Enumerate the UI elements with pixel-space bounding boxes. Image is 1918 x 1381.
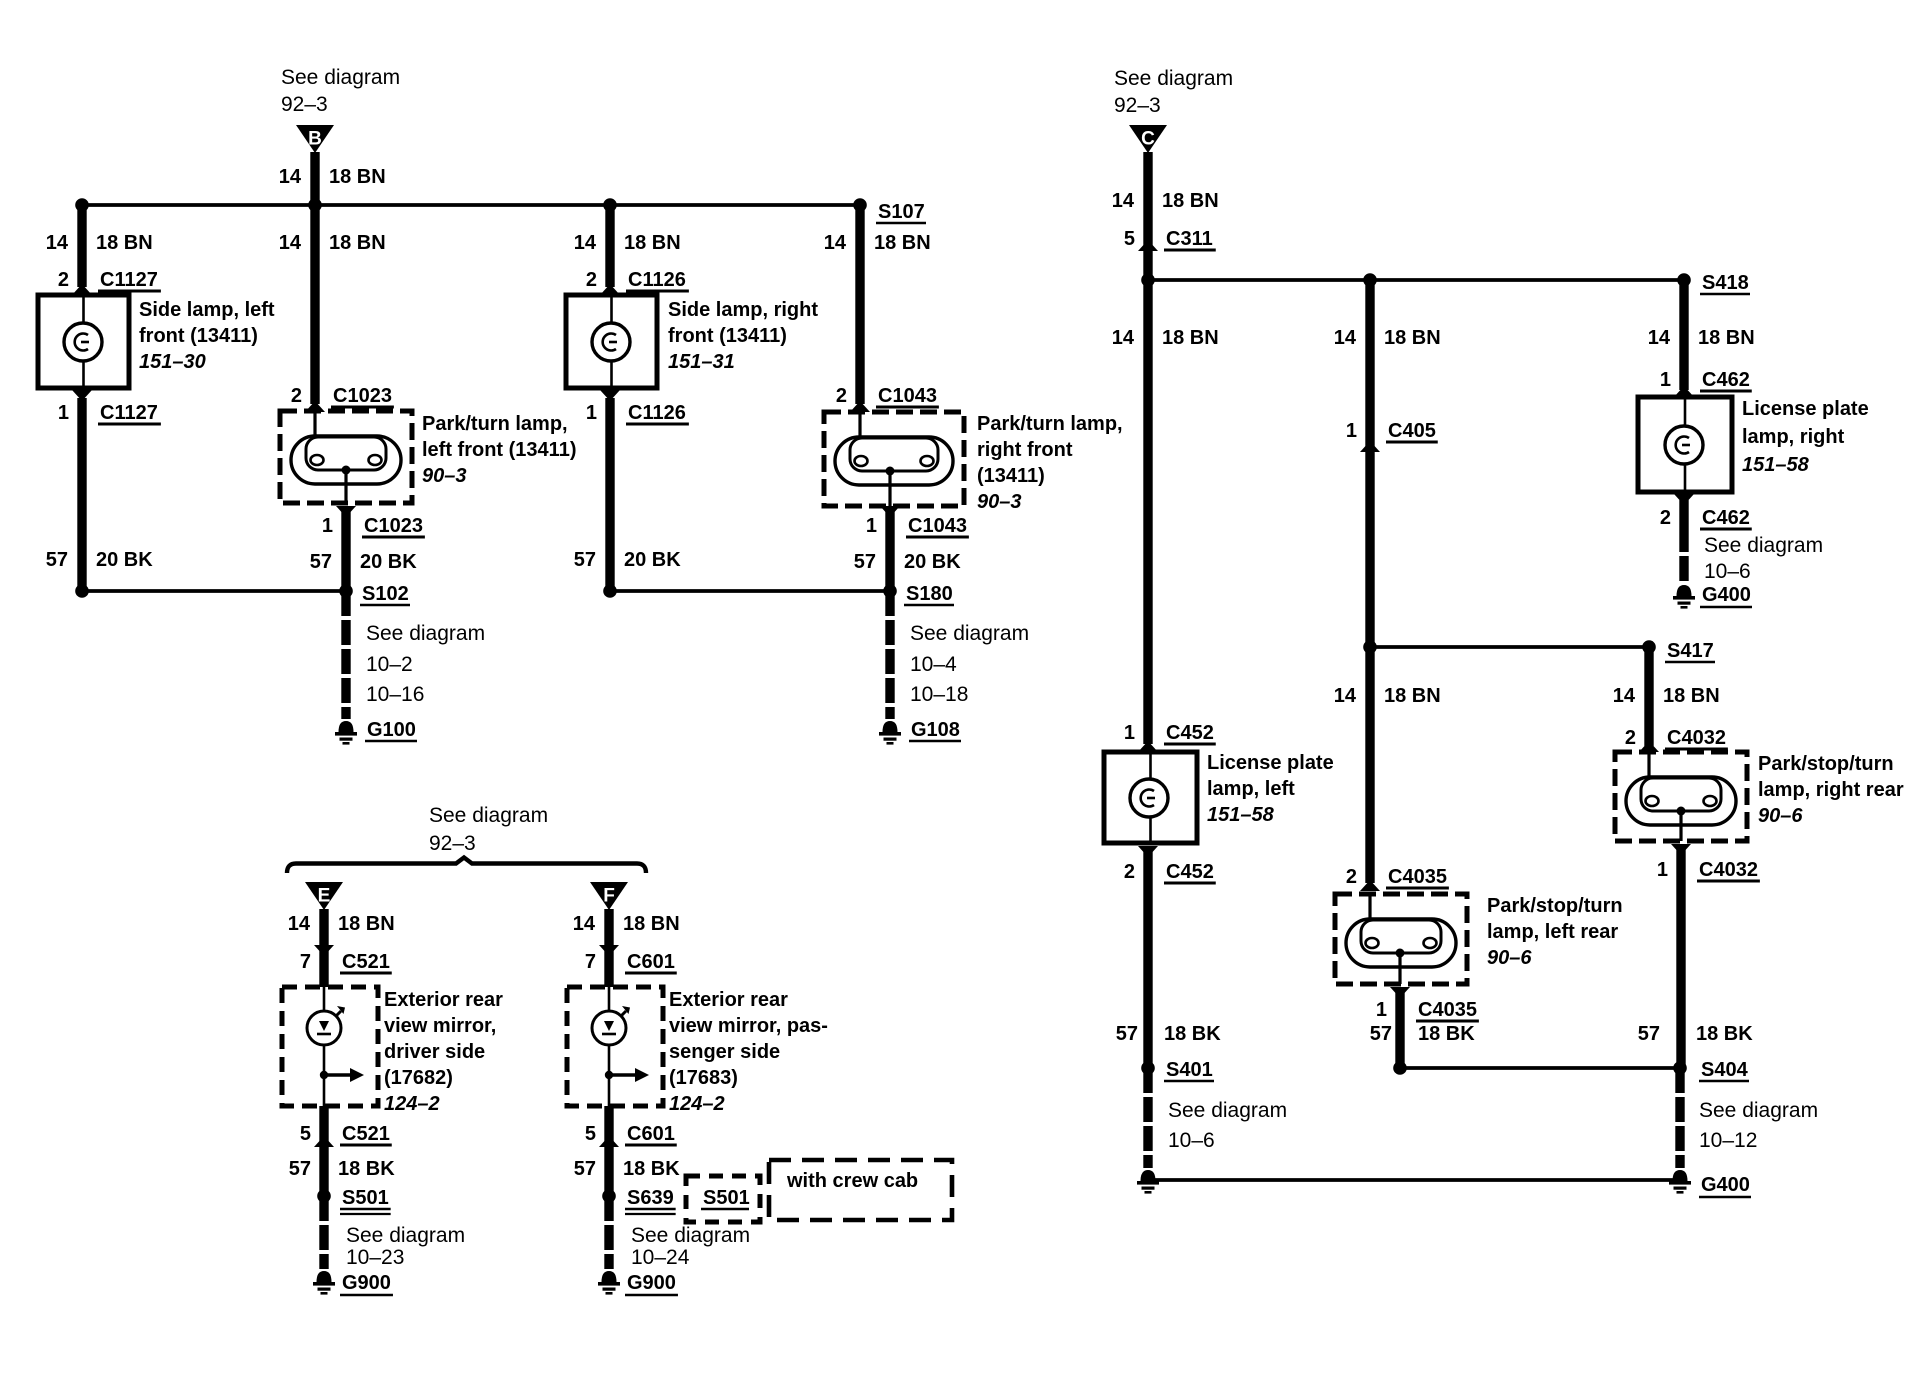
svg-text:front (13411): front (13411) bbox=[668, 325, 787, 347]
svg-text:C311: C311 bbox=[1166, 228, 1213, 250]
svg-text:S404: S404 bbox=[1701, 1059, 1749, 1081]
svg-text:18 BK: 18 BK bbox=[1164, 1023, 1221, 1045]
svg-text:10–12: 10–12 bbox=[1699, 1129, 1757, 1152]
svg-text:S107: S107 bbox=[878, 201, 925, 223]
svg-text:151–58: 151–58 bbox=[1742, 454, 1810, 476]
svg-text:5: 5 bbox=[585, 1123, 596, 1145]
svg-text:18 BN: 18 BN bbox=[1162, 327, 1219, 349]
svg-text:18 BN: 18 BN bbox=[1384, 685, 1441, 707]
svg-text:18 BN: 18 BN bbox=[96, 232, 153, 254]
svg-text:18 BN: 18 BN bbox=[329, 232, 386, 254]
svg-text:C1127: C1127 bbox=[100, 402, 158, 424]
svg-text:Exterior rear: Exterior rear bbox=[384, 989, 503, 1011]
svg-text:view mirror, pas-: view mirror, pas- bbox=[669, 1015, 828, 1037]
svg-text:Park/stop/turn: Park/stop/turn bbox=[1487, 895, 1623, 917]
svg-text:57: 57 bbox=[574, 549, 596, 571]
svg-text:18 BN: 18 BN bbox=[1663, 685, 1720, 707]
svg-text:124–2: 124–2 bbox=[384, 1093, 440, 1115]
svg-text:C1126: C1126 bbox=[628, 402, 686, 424]
svg-text:C1043: C1043 bbox=[908, 515, 967, 537]
svg-text:57: 57 bbox=[1116, 1023, 1138, 1045]
svg-text:Park/turn lamp,: Park/turn lamp, bbox=[977, 413, 1123, 435]
svg-text:1: 1 bbox=[1376, 999, 1387, 1021]
svg-text:License plate: License plate bbox=[1207, 752, 1334, 774]
svg-text:57: 57 bbox=[310, 551, 332, 573]
svg-text:C601: C601 bbox=[627, 951, 675, 973]
svg-text:18 BK: 18 BK bbox=[623, 1158, 680, 1180]
svg-text:See diagram: See diagram bbox=[281, 66, 400, 89]
svg-text:18 BN: 18 BN bbox=[874, 232, 931, 254]
svg-text:18 BK: 18 BK bbox=[1696, 1023, 1753, 1045]
svg-text:1: 1 bbox=[58, 402, 69, 424]
svg-text:Exterior rear: Exterior rear bbox=[669, 989, 788, 1011]
svg-text:2: 2 bbox=[1625, 727, 1636, 749]
svg-text:14: 14 bbox=[1112, 327, 1135, 349]
svg-text:See diagram: See diagram bbox=[346, 1224, 465, 1247]
svg-text:C1126: C1126 bbox=[628, 269, 686, 291]
svg-text:57: 57 bbox=[46, 549, 68, 571]
svg-text:C1023: C1023 bbox=[364, 515, 423, 537]
svg-text:90–3: 90–3 bbox=[977, 491, 1022, 513]
svg-text:18 BK: 18 BK bbox=[338, 1158, 395, 1180]
svg-text:1: 1 bbox=[1124, 722, 1135, 744]
svg-text:1: 1 bbox=[1660, 369, 1671, 391]
svg-text:See diagram: See diagram bbox=[1699, 1099, 1818, 1122]
svg-text:1: 1 bbox=[1657, 859, 1668, 881]
svg-text:view mirror,: view mirror, bbox=[384, 1015, 496, 1037]
svg-text:See diagram: See diagram bbox=[1114, 67, 1233, 90]
svg-text:10–4: 10–4 bbox=[910, 653, 957, 676]
svg-text:20 BK: 20 BK bbox=[624, 549, 681, 571]
svg-text:(17682): (17682) bbox=[384, 1067, 453, 1089]
svg-text:C1043: C1043 bbox=[878, 385, 937, 407]
svg-text:with crew cab: with crew cab bbox=[786, 1170, 918, 1192]
svg-text:S639: S639 bbox=[627, 1187, 674, 1209]
svg-text:(17683): (17683) bbox=[669, 1067, 738, 1089]
svg-text:14: 14 bbox=[46, 232, 69, 254]
svg-text:20 BK: 20 BK bbox=[96, 549, 153, 571]
svg-text:G400: G400 bbox=[1701, 1174, 1750, 1196]
svg-text:2: 2 bbox=[291, 385, 302, 407]
svg-text:C462: C462 bbox=[1702, 369, 1750, 391]
svg-text:G900: G900 bbox=[627, 1272, 676, 1294]
svg-text:14: 14 bbox=[1334, 685, 1357, 707]
svg-text:7: 7 bbox=[585, 951, 596, 973]
svg-text:C4035: C4035 bbox=[1418, 999, 1477, 1021]
svg-text:57: 57 bbox=[1370, 1023, 1392, 1045]
svg-text:2: 2 bbox=[836, 385, 847, 407]
svg-text:S417: S417 bbox=[1667, 640, 1714, 662]
svg-text:18 BN: 18 BN bbox=[329, 166, 386, 188]
svg-text:1: 1 bbox=[322, 515, 333, 537]
svg-text:10–6: 10–6 bbox=[1168, 1129, 1215, 1152]
svg-text:151–30: 151–30 bbox=[139, 351, 206, 373]
svg-text:18 BN: 18 BN bbox=[1698, 327, 1755, 349]
svg-text:S180: S180 bbox=[906, 583, 953, 605]
svg-text:90–6: 90–6 bbox=[1487, 947, 1532, 969]
svg-text:lamp, right rear: lamp, right rear bbox=[1758, 779, 1904, 801]
svg-text:G108: G108 bbox=[911, 719, 960, 741]
svg-text:14: 14 bbox=[1613, 685, 1636, 707]
svg-text:See diagram: See diagram bbox=[631, 1224, 750, 1247]
svg-text:14: 14 bbox=[573, 913, 596, 935]
svg-text:C452: C452 bbox=[1166, 861, 1214, 883]
svg-text:driver side: driver side bbox=[384, 1041, 485, 1063]
svg-text:18 BN: 18 BN bbox=[624, 232, 681, 254]
svg-text:18 BK: 18 BK bbox=[1418, 1023, 1475, 1045]
svg-text:right front: right front bbox=[977, 439, 1073, 461]
svg-text:124–2: 124–2 bbox=[669, 1093, 725, 1115]
svg-text:57: 57 bbox=[1638, 1023, 1660, 1045]
svg-text:57: 57 bbox=[574, 1158, 596, 1180]
svg-text:See diagram: See diagram bbox=[910, 622, 1029, 645]
svg-text:90–3: 90–3 bbox=[422, 465, 467, 487]
svg-text:Side lamp, left: Side lamp, left bbox=[139, 299, 275, 321]
svg-text:C1023: C1023 bbox=[333, 385, 392, 407]
svg-text:See diagram: See diagram bbox=[429, 804, 548, 827]
svg-text:1: 1 bbox=[866, 515, 877, 537]
svg-text:Park/stop/turn: Park/stop/turn bbox=[1758, 753, 1894, 775]
svg-text:G900: G900 bbox=[342, 1272, 391, 1294]
svg-text:10–2: 10–2 bbox=[366, 653, 413, 676]
svg-text:14: 14 bbox=[1112, 190, 1135, 212]
svg-text:92–3: 92–3 bbox=[1114, 94, 1161, 117]
svg-text:1: 1 bbox=[1346, 420, 1357, 442]
svg-text:18 BN: 18 BN bbox=[1384, 327, 1441, 349]
svg-text:14: 14 bbox=[824, 232, 847, 254]
svg-text:B: B bbox=[308, 129, 322, 150]
svg-text:S401: S401 bbox=[1166, 1059, 1213, 1081]
svg-text:C601: C601 bbox=[627, 1123, 675, 1145]
svg-text:92–3: 92–3 bbox=[281, 93, 328, 116]
svg-text:57: 57 bbox=[289, 1158, 311, 1180]
svg-text:C4032: C4032 bbox=[1667, 727, 1726, 749]
svg-text:10–23: 10–23 bbox=[346, 1246, 404, 1269]
svg-text:2: 2 bbox=[586, 269, 597, 291]
svg-text:lamp, left rear: lamp, left rear bbox=[1487, 921, 1618, 943]
svg-text:C462: C462 bbox=[1702, 507, 1750, 529]
svg-text:C1127: C1127 bbox=[100, 269, 158, 291]
svg-text:senger side: senger side bbox=[669, 1041, 780, 1063]
svg-text:License plate: License plate bbox=[1742, 398, 1869, 420]
svg-text:C4032: C4032 bbox=[1699, 859, 1758, 881]
svg-text:2: 2 bbox=[1660, 507, 1671, 529]
svg-text:(13411): (13411) bbox=[977, 465, 1045, 487]
svg-text:2: 2 bbox=[1346, 866, 1357, 888]
svg-text:See diagram: See diagram bbox=[366, 622, 485, 645]
svg-text:See diagram: See diagram bbox=[1704, 534, 1823, 557]
svg-text:10–6: 10–6 bbox=[1704, 560, 1751, 583]
svg-text:E: E bbox=[318, 886, 331, 907]
svg-text:C452: C452 bbox=[1166, 722, 1214, 744]
svg-text:lamp, left: lamp, left bbox=[1207, 778, 1295, 800]
svg-text:front (13411): front (13411) bbox=[139, 325, 258, 347]
svg-text:See diagram: See diagram bbox=[1168, 1099, 1287, 1122]
svg-text:18 BN: 18 BN bbox=[623, 913, 680, 935]
svg-text:Side lamp, right: Side lamp, right bbox=[668, 299, 818, 321]
svg-text:14: 14 bbox=[1334, 327, 1357, 349]
svg-text:14: 14 bbox=[279, 166, 302, 188]
svg-text:S418: S418 bbox=[1702, 272, 1749, 294]
svg-text:151–31: 151–31 bbox=[668, 351, 735, 373]
svg-text:14: 14 bbox=[279, 232, 302, 254]
svg-text:2: 2 bbox=[1124, 861, 1135, 883]
svg-text:90–6: 90–6 bbox=[1758, 805, 1803, 827]
svg-text:C: C bbox=[1141, 129, 1155, 150]
svg-text:20 BK: 20 BK bbox=[360, 551, 417, 573]
svg-text:57: 57 bbox=[854, 551, 876, 573]
svg-text:S501: S501 bbox=[342, 1187, 389, 1209]
svg-text:C405: C405 bbox=[1388, 420, 1436, 442]
svg-text:18 BN: 18 BN bbox=[338, 913, 395, 935]
svg-text:92–3: 92–3 bbox=[429, 832, 476, 855]
svg-text:G100: G100 bbox=[367, 719, 416, 741]
svg-text:S102: S102 bbox=[362, 583, 409, 605]
svg-text:C4035: C4035 bbox=[1388, 866, 1447, 888]
svg-text:14: 14 bbox=[574, 232, 597, 254]
svg-text:14: 14 bbox=[1648, 327, 1671, 349]
svg-text:7: 7 bbox=[300, 951, 311, 973]
svg-text:5: 5 bbox=[300, 1123, 311, 1145]
svg-text:14: 14 bbox=[288, 913, 311, 935]
svg-text:F: F bbox=[603, 886, 615, 907]
svg-text:10–24: 10–24 bbox=[631, 1246, 690, 1269]
svg-text:lamp, right: lamp, right bbox=[1742, 426, 1845, 448]
svg-text:18 BN: 18 BN bbox=[1162, 190, 1219, 212]
svg-text:C521: C521 bbox=[342, 1123, 390, 1145]
svg-text:2: 2 bbox=[58, 269, 69, 291]
svg-text:C521: C521 bbox=[342, 951, 390, 973]
svg-text:10–18: 10–18 bbox=[910, 683, 968, 706]
svg-text:left front (13411): left front (13411) bbox=[422, 439, 576, 461]
svg-text:G400: G400 bbox=[1702, 584, 1751, 606]
svg-text:151–58: 151–58 bbox=[1207, 804, 1275, 826]
svg-text:5: 5 bbox=[1124, 228, 1135, 250]
svg-text:S501: S501 bbox=[703, 1187, 750, 1209]
svg-text:20 BK: 20 BK bbox=[904, 551, 961, 573]
svg-text:1: 1 bbox=[586, 402, 597, 424]
svg-text:10–16: 10–16 bbox=[366, 683, 424, 706]
svg-text:Park/turn lamp,: Park/turn lamp, bbox=[422, 413, 568, 435]
